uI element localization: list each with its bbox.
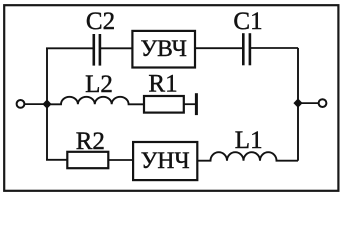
wire: C1 to right bus corner <box>250 47 298 49</box>
wire: R1 to stub terminal <box>184 103 196 105</box>
wire: УВЧ block to C1 <box>195 47 243 49</box>
terminal: right output <box>319 99 327 107</box>
wire: left bus vertical <box>46 48 48 159</box>
svg-text:L2: L2 <box>85 71 113 98</box>
wire: left terminal to node A <box>25 103 47 105</box>
svg-text:УВЧ: УВЧ <box>140 36 186 62</box>
svg-text:L1: L1 <box>235 127 263 154</box>
capacitor C1 <box>243 33 250 65</box>
wire: bottom row, left bus to R2 <box>46 159 68 161</box>
terminal stub (bar) after R1 <box>195 93 198 115</box>
wire: R2 to УНЧ block <box>108 159 133 161</box>
svg-text:R1: R1 <box>148 71 177 98</box>
terminal: left input <box>17 100 25 108</box>
svg-text:C2: C2 <box>86 8 115 35</box>
wire: C2 to УВЧ block <box>100 47 133 49</box>
capacitor C2 <box>94 34 100 66</box>
svg-text:УНЧ: УНЧ <box>141 148 190 174</box>
wire: top row, node to C2 <box>46 47 94 49</box>
wire: node B to right terminal <box>298 102 319 104</box>
node A (left junction) <box>42 99 51 108</box>
block U1 УВЧ (RF amplifier) <box>132 31 195 68</box>
resistor R2 <box>67 152 108 168</box>
svg-text:C1: C1 <box>233 8 262 35</box>
block U2 УНЧ (AF amplifier) <box>133 142 197 180</box>
inductor L2 <box>47 97 144 105</box>
node B (right junction) <box>293 98 302 107</box>
wire: right bus vertical <box>297 48 299 161</box>
svg-text:R2: R2 <box>76 128 105 155</box>
inductor L1 <box>198 152 299 161</box>
resistor R1 <box>144 96 184 113</box>
